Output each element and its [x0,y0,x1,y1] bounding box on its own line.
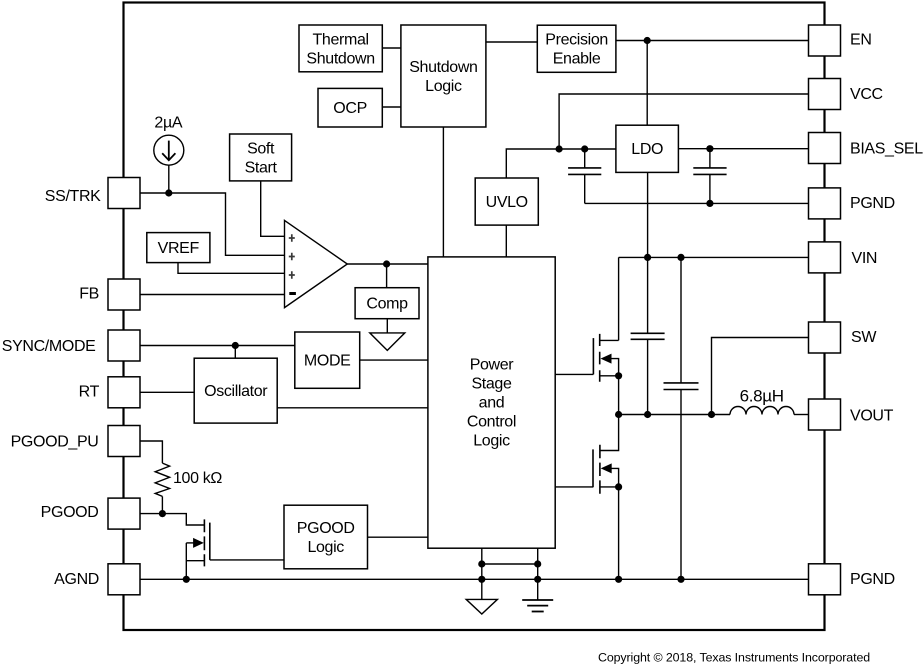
pin VCC [809,79,883,110]
wire VCC pin to LDO input rail [559,94,808,149]
svg-text:OCP: OCP [333,100,367,117]
pin PGND [809,188,895,219]
wire PGOOD_PU to resistor [140,441,162,463]
svg-text:SS/TRK: SS/TRK [45,188,101,205]
block MODE [295,332,360,388]
svg-text:Shutdown: Shutdown [409,59,477,76]
wire Comp to external pin triangle [386,319,388,333]
svg-text:6.8µH: 6.8µH [740,386,784,405]
svg-text:Logic: Logic [425,78,462,95]
wire LDO left rail to UVLO [506,149,616,178]
wire VREF to error amp input 3 [178,263,285,274]
block Thermal Shutdown [299,25,382,72]
block Precision Enable [537,25,616,72]
block PGOOD Logic [284,505,368,569]
svg-text:VCC: VCC [850,86,883,103]
node VIN-C4 junction [677,254,684,261]
wire Soft Start to error amp input 1 [261,181,285,236]
wire PGOOD pin to Q3 drain [140,514,204,525]
wire MODE to power stage [360,359,428,361]
svg-text:BIAS_SEL: BIAS_SEL [850,141,923,158]
wire RT to Oscillator [140,391,194,393]
transistor Q3 PGOOD open-drain FET [186,519,210,579]
svg-text:Comp: Comp [366,296,408,313]
block VREF [147,233,210,263]
svg-text:Logic: Logic [473,432,510,449]
wire LDO output to BIAS_SEL pin [678,148,808,150]
node VIN-LDO junction [644,254,651,261]
capacitor C1 (VCC bypass) [568,149,601,203]
wire SYNC branch to Oscillator [234,346,236,359]
svg-text:2µA: 2µA [154,115,182,132]
capacitor C2 (BIAS bypass) [693,149,726,204]
wire Q3 gate to PGOOD Logic [210,559,284,561]
comp ground triangle [370,333,405,351]
block UVLO [475,178,538,225]
resistor 100 kOhm [155,463,222,496]
wire Shutdown Logic to power stage [442,127,444,257]
capacitor C3 (bootstrap) [631,333,665,414]
wire AGND bottom rail [140,578,809,580]
pin PGND bottom [809,564,895,595]
wire Shutdown Logic to Precision Enable [486,41,537,43]
block OCP [318,88,382,127]
svg-text:PGOOD_PU: PGOOD_PU [11,433,99,450]
node ground link junctions [478,560,541,567]
svg-text:Power: Power [470,356,515,373]
inductor 6.8uH [730,386,794,414]
current source 2uA [154,115,184,194]
svg-text:100 kΩ: 100 kΩ [173,470,222,487]
IC boundary [124,3,825,631]
node comp branch [383,260,390,267]
node SYNC branch [232,342,239,349]
svg-text:AGND: AGND [54,571,99,588]
svg-text:Oscillator: Oscillator [204,383,268,400]
node EN branch [644,37,651,44]
svg-text:VREF: VREF [158,240,200,257]
wire VIN rail [619,256,809,258]
ground (analog triangle) [466,599,497,614]
svg-text:Start: Start [245,159,278,176]
pin SW [809,322,878,353]
pin FB [79,279,140,310]
svg-text:Stage: Stage [471,375,512,392]
svg-text:Copyright © 2018, Texas Instru: Copyright © 2018, Texas Instruments Inco… [598,651,870,665]
svg-text:RT: RT [79,384,100,401]
svg-text:Logic: Logic [307,539,344,556]
wire Precision Enable to EN pin [616,40,809,42]
block Comp [355,288,419,319]
pin AGND [54,564,140,595]
svg-text:SYNC/MODE: SYNC/MODE [2,338,96,355]
wire EN branch down to LDO [646,41,648,126]
svg-text:Enable: Enable [553,51,601,68]
block Oscillator [194,358,277,423]
wire OCP to Shutdown Logic [382,106,401,108]
transistor Q1 high-side FET [555,257,622,414]
svg-text:Thermal: Thermal [312,31,368,48]
pin SYNC/MODE [2,330,140,361]
pin PGOOD [41,498,140,529]
node SW rail junctions [615,411,715,418]
pin EN [809,25,872,56]
block Soft Start [230,134,292,181]
wire SS/TRK to error amp input 2 [140,193,285,255]
svg-text:EN: EN [850,32,872,49]
node VCC-LDO junction [556,145,563,152]
wire SW node rail to VOUT pin with inductor [619,414,809,416]
node C2 bottom junction [706,200,713,207]
svg-text:SW: SW [851,329,877,346]
svg-text:PGND: PGND [850,195,895,212]
svg-text:FB: FB [79,286,99,303]
wire PGOOD Logic to power stage [368,536,428,538]
svg-text:Precision: Precision [545,32,608,49]
pin RT [79,377,140,408]
block Power Stage and Control Logic [428,257,555,548]
node C2 top junction [706,145,713,152]
svg-text:Shutdown: Shutdown [306,50,374,67]
wire error amp output to power stage [347,263,428,265]
svg-text:PGND: PGND [850,571,895,588]
pin PGOOD_PU [11,426,140,457]
wire Thermal Shutdown to Shutdown Logic [382,47,401,49]
svg-text:MODE: MODE [304,353,351,370]
pin SS/TRK [45,178,140,209]
wire UVLO to power stage [505,225,507,257]
wire cap ground rail to PGND pin [585,202,809,204]
pin VIN [809,242,878,273]
svg-text:LDO: LDO [631,141,663,158]
node SS/TRK junction [165,189,172,196]
ground (earth) [522,600,553,612]
svg-text:Control: Control [467,413,516,430]
wire Oscillator to power stage [277,407,428,409]
wire resistor to PGOOD node [161,496,163,513]
op-amp error amplifier [285,220,348,307]
svg-text:VOUT: VOUT [850,408,894,425]
capacitor C4 (VIN bypass) [664,257,699,579]
svg-text:Soft: Soft [247,140,275,157]
wire power stage ground leads [482,548,538,600]
block Shutdown Logic [401,25,486,127]
svg-text:PGOOD: PGOOD [41,504,99,521]
pin VOUT [809,399,894,430]
wire LDO bottom to VIN rail and bootstrap cap [647,172,649,333]
wire SW pin down to SW rail [712,338,809,415]
wire SYNC/MODE to MODE block [140,345,295,347]
node C1 top junction [581,145,588,152]
svg-text:PGOOD: PGOOD [297,520,355,537]
block LDO [616,125,679,172]
svg-text:UVLO: UVLO [486,194,528,211]
wire comp branch down [386,264,388,288]
wire FB to error amp inverting input [140,294,285,296]
transistor Q2 low-side FET [555,415,622,580]
pin BIAS_SEL [809,133,924,164]
node AGND rail junctions [183,576,685,583]
svg-text:VIN: VIN [852,250,878,267]
node PGOOD junction [159,510,166,517]
svg-text:and: and [479,394,505,411]
